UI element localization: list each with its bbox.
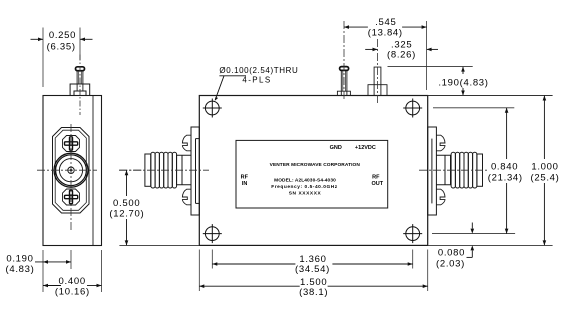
right barrel thread ridges <box>451 152 477 188</box>
pin cap (side view) <box>76 67 85 71</box>
dim 0.840 line and arrows <box>506 108 508 234</box>
svg-text:(38.1): (38.1) <box>299 287 328 298</box>
svg-text:.545: .545 <box>375 17 396 28</box>
dim 0.080 arrows <box>467 223 473 258</box>
dim .545 extension line right <box>426 21 428 90</box>
svg-text:0.500: 0.500 <box>113 198 140 209</box>
svg-text:.190(4.83): .190(4.83) <box>438 77 488 88</box>
dim 0.190 line and arrows <box>35 261 71 263</box>
left SMA connector plate <box>191 127 199 215</box>
bottom screw phillips cross <box>65 190 78 203</box>
svg-text:(6.35): (6.35) <box>47 41 76 52</box>
dim 0.250 extension lines <box>42 28 44 88</box>
svg-text:(12.70): (12.70) <box>109 209 144 220</box>
pin shaft (side view) <box>77 71 83 92</box>
main body outline <box>199 96 427 246</box>
dim 0.500 line and arrows <box>126 170 128 245</box>
svg-text:(25.4): (25.4) <box>530 172 559 183</box>
corner hole top-left <box>203 99 222 118</box>
GND pin centerline <box>343 21 345 101</box>
dim 0.250 arrows <box>31 38 93 40</box>
svg-text:VENTER MICROWAVE CORPORATION: VENTER MICROWAVE CORPORATION <box>270 162 361 168</box>
hole center extension line top right <box>433 107 514 109</box>
svg-text:(13.84): (13.84) <box>368 27 403 38</box>
top screw octagon <box>63 136 80 152</box>
dim 0.500 top reference tick <box>119 169 143 171</box>
dim 1.360 line and arrows <box>212 263 295 265</box>
connector flange outer octagon <box>53 128 90 214</box>
left top mounting screw (side) <box>182 135 191 151</box>
svg-text:1.000: 1.000 <box>531 161 558 172</box>
body bottom edge extended right <box>428 244 553 246</box>
dim 1.360 extension lines <box>211 250 213 269</box>
svg-text:0.190: 0.190 <box>6 253 33 264</box>
feedthrough mount block (side view) <box>70 84 90 96</box>
dim .190 arrows <box>462 67 464 96</box>
svg-text:(2.03): (2.03) <box>436 259 465 270</box>
svg-text:IN: IN <box>242 181 248 187</box>
hole center extension line bottom right <box>432 233 515 235</box>
right connector smooth tip <box>477 154 483 186</box>
svg-text:MODEL: A2L4030-S4-4030: MODEL: A2L4030-S4-4030 <box>274 178 336 184</box>
bottom screw octagon <box>63 189 80 205</box>
svg-text:(10.16): (10.16) <box>55 286 90 297</box>
body bottom edge extended left <box>119 244 199 246</box>
dim 0.400 line and arrows <box>43 285 61 287</box>
svg-text:Frequency: 0.5-40.0GHz: Frequency: 0.5-40.0GHz <box>271 184 338 190</box>
dim .325 arrows <box>365 48 438 50</box>
corner hole bottom-left <box>203 224 222 243</box>
right SMA connector plate <box>428 127 437 215</box>
svg-text:(4.83): (4.83) <box>5 264 34 275</box>
+12VDC feedthrough pin <box>368 67 387 95</box>
svg-text:0.250: 0.250 <box>49 30 76 41</box>
left bottom mounting screw (side) <box>182 189 191 205</box>
left view inner edge line <box>92 96 94 246</box>
svg-text:4-PLS: 4-PLS <box>242 76 271 85</box>
svg-text:(21.34): (21.34) <box>488 172 523 183</box>
input connector concentric circles <box>54 153 88 187</box>
svg-text:OUT: OUT <box>371 181 383 187</box>
left connector smooth tip <box>145 154 151 186</box>
dim 1.000 line and arrows <box>543 96 545 246</box>
right top mounting screw (side) <box>436 135 445 151</box>
dim .190 extension line <box>388 66 473 68</box>
GND pin cap <box>340 67 349 71</box>
svg-text:SN XXXXXX: SN XXXXXX <box>289 190 322 196</box>
svg-text:(8.26): (8.26) <box>387 50 416 61</box>
corner hole bottom-right <box>403 224 422 243</box>
dim 1.500 line and arrows <box>199 285 299 287</box>
left connector centerline <box>119 169 209 171</box>
GND feedthrough pin <box>337 70 350 95</box>
pin centerline (side view) <box>79 55 81 116</box>
right connector centerline <box>419 169 489 171</box>
svg-text:Ø0.100(2.54)THRU: Ø0.100(2.54)THRU <box>219 66 298 75</box>
corner hole top-right <box>403 99 422 118</box>
label plate rectangle <box>236 140 388 208</box>
dim 1.500 extension lines <box>198 250 200 292</box>
svg-text:(34.54): (34.54) <box>295 264 330 275</box>
svg-text:0.080: 0.080 <box>438 248 465 259</box>
left view body outline <box>43 96 102 246</box>
svg-text:0.400: 0.400 <box>59 276 86 287</box>
svg-text:0.840: 0.840 <box>491 161 518 172</box>
right bottom mounting screw (side) <box>436 189 445 205</box>
top screw phillips cross <box>65 137 78 150</box>
right connector neck <box>436 155 450 185</box>
svg-text:GND: GND <box>330 145 342 151</box>
+12VDC pin centerline <box>377 39 379 103</box>
left view horizontal centerline <box>37 169 97 171</box>
svg-text:+12VDC: +12VDC <box>355 145 376 151</box>
left connector neck <box>177 155 192 185</box>
dim 0.190 extension lines <box>42 250 44 292</box>
left view vertical centerline through flange <box>70 124 72 232</box>
body top edge extended right <box>428 95 553 97</box>
svg-text:RF: RF <box>241 174 249 180</box>
hole callout leader <box>215 76 246 100</box>
svg-text:RF: RF <box>372 174 380 180</box>
left barrel thread ridges <box>151 152 177 188</box>
dim .545 line and arrows <box>344 26 368 28</box>
connector flange inner octagon <box>55 130 86 210</box>
